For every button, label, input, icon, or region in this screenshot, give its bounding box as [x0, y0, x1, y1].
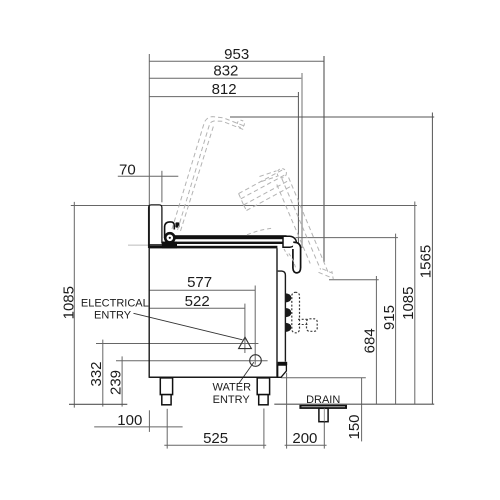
dimension line 832	[149, 77, 302, 79]
worktop band A (pan rim)	[171, 235, 287, 239]
front leg	[160, 378, 172, 395]
svg-text:1085: 1085	[400, 287, 417, 320]
dashed tilt lever	[298, 318, 308, 320]
dashed tilted lid left cap	[239, 194, 244, 205]
dashed lever knob	[307, 319, 318, 332]
dimension line 239	[121, 356, 123, 406]
dashed tilted lid bottom cluster	[319, 272, 331, 277]
bottom right chamfer block	[278, 365, 287, 377]
svg-text:70: 70	[119, 161, 136, 178]
dashed tilted lid corner cap	[277, 169, 286, 178]
svg-text:DRAIN: DRAIN	[306, 394, 340, 406]
svg-text:1565: 1565	[418, 245, 435, 278]
dashed swing arc above worktop	[247, 228, 272, 235]
dashed open lid line 3	[181, 126, 214, 231]
svg-text:200: 200	[292, 430, 317, 447]
svg-text:100: 100	[117, 412, 142, 429]
svg-text:239: 239	[108, 370, 125, 395]
extension line 832 right	[301, 73, 303, 248]
svg-text:ELECTRICAL: ELECTRICAL	[81, 297, 149, 309]
dashed tilted lid side s2	[282, 179, 321, 270]
dimension line 812	[149, 96, 298, 98]
knob 1	[285, 293, 291, 302]
dimension line 150	[361, 378, 363, 442]
dimension line 70	[118, 175, 179, 177]
svg-text:ENTRY: ENTRY	[94, 310, 132, 322]
rear leg	[257, 378, 269, 395]
extension line 577 (water entry vertical)	[254, 286, 256, 365]
dimension line 522	[149, 307, 245, 309]
dimension line 577	[149, 289, 255, 291]
body left edge	[148, 205, 150, 378]
svg-text:832: 832	[213, 63, 238, 80]
svg-text:150: 150	[346, 414, 363, 439]
dimension line 684	[375, 276, 377, 404]
dimension line 1085 left	[73, 202, 75, 408]
dashed tilted lid side s1	[289, 178, 328, 273]
knob 2	[285, 308, 291, 317]
ghost tick left of body at worktop	[128, 244, 149, 246]
worktop ledge left	[149, 244, 162, 246]
dimension line 953	[149, 60, 324, 62]
dimension line 525	[164, 444, 266, 446]
dashed open lid handle roll	[237, 120, 244, 127]
floor line left	[69, 403, 127, 405]
svg-text:915: 915	[381, 305, 398, 330]
extension line 953 right (lid tip projected down)	[323, 56, 325, 262]
extension line rear leg centerline	[263, 409, 265, 449]
dashed tilted lid handle tip	[260, 171, 277, 177]
svg-text:577: 577	[187, 274, 212, 291]
body right edge	[276, 248, 278, 378]
svg-text:812: 812	[212, 81, 237, 98]
svg-text:522: 522	[185, 293, 210, 310]
hinge pivot ring	[165, 233, 174, 242]
extension line 812 right	[297, 92, 299, 252]
dimension line 100	[94, 426, 182, 428]
drain flange	[300, 405, 347, 408]
lid rear end cap	[175, 222, 179, 227]
floor line right	[274, 403, 434, 405]
extension line drain centerline	[323, 409, 325, 449]
svg-text:684: 684	[362, 328, 379, 353]
extension line 100 left (body edge projected down)	[148, 410, 150, 432]
electrical entry symbol (triangle)	[239, 337, 252, 348]
svg-text:332: 332	[88, 361, 105, 386]
extension line electrical height (332)	[96, 343, 258, 345]
extension line body right projected down (200)	[286, 373, 288, 449]
svg-text:953: 953	[224, 46, 249, 63]
drain pipe	[319, 408, 328, 421]
svg-text:WATER: WATER	[213, 382, 252, 394]
extension line backsplash top (1085 both sides)	[71, 205, 417, 207]
knob 3	[285, 323, 291, 332]
extension line 522 (electrical entry vertical)	[244, 304, 246, 353]
dashed tilted lid edge d	[247, 187, 291, 211]
extension line drain height (150)	[281, 377, 366, 379]
dashed bits near pivot right	[284, 249, 289, 258]
dashed tilted lid side s3	[277, 185, 310, 264]
extension line left datum (body left edge projected up)	[148, 54, 150, 205]
dashed open lid line 2	[178, 121, 245, 230]
hinge mass	[162, 242, 177, 249]
extension line water height (239)	[116, 360, 268, 362]
dashed tilted lid edge b	[241, 174, 286, 198]
lid hook handle	[293, 242, 301, 273]
extension line side step (684)	[329, 279, 379, 281]
dashed tilted lid edge c	[244, 181, 289, 205]
dimension line 915	[395, 234, 397, 404]
leader water	[239, 362, 254, 383]
backsplash	[149, 205, 162, 248]
extension line lid top (1565)	[230, 116, 434, 118]
dashed tilt handle strip	[292, 292, 300, 333]
extension line 70 right (backsplash face)	[161, 171, 163, 203]
svg-text:ENTRY: ENTRY	[213, 394, 251, 406]
extension line front leg centerline	[166, 409, 168, 449]
water entry symbol (circle)	[250, 355, 262, 367]
dimension line 1565	[431, 113, 433, 405]
body bottom	[149, 376, 277, 378]
svg-text:525: 525	[203, 430, 228, 447]
bullnose front edge	[283, 236, 296, 247]
extension line pan rim (915)	[296, 237, 398, 239]
hinge arm	[165, 222, 175, 238]
dimension line 1085 right	[414, 202, 416, 404]
dimension line 332	[102, 340, 104, 407]
leader electrical	[134, 313, 243, 340]
dimension line 200	[285, 444, 327, 446]
svg-text:1085: 1085	[61, 286, 78, 319]
worktop band C (front top edge)	[149, 246, 277, 249]
side step and control face	[278, 271, 286, 362]
dashed arc near hook	[289, 254, 296, 269]
dashed open lid line 1	[172, 117, 245, 229]
worktop band B	[162, 242, 288, 244]
dashed tilted lid edge a	[239, 169, 284, 193]
bottom right cap	[278, 362, 288, 365]
